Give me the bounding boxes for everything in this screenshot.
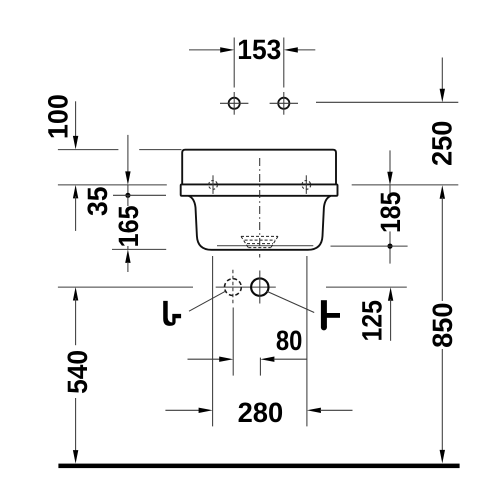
inner bottom extension line right	[331, 245, 408, 247]
dim 100 line	[75, 101, 77, 137]
centerline	[259, 158, 261, 258]
extension line x=233.2	[232, 308, 234, 376]
dim 280 left arrow	[165, 409, 200, 411]
extension line x=306.9	[306, 256, 308, 426]
svg-text:125: 125	[356, 300, 387, 342]
svg-text:850: 850	[427, 303, 458, 348]
dim 80 left arrow	[188, 358, 221, 360]
svg-text:165: 165	[113, 205, 144, 247]
rim top extension line left	[58, 184, 167, 186]
drain recess dashed outline	[241, 235, 278, 237]
svg-text:185: 185	[375, 192, 406, 234]
faucet hole right	[278, 98, 289, 109]
dim 250 top arrow	[441, 58, 443, 91]
svg-text:80: 80	[276, 325, 303, 356]
chain dot 185/125	[387, 244, 392, 249]
rim fixing mark right	[305, 175, 307, 194]
water outlet solid circle	[251, 278, 268, 295]
extension line x=212.6	[212, 256, 214, 426]
basin rim	[181, 184, 338, 195]
dim 153 ext line right	[283, 38, 285, 88]
svg-text:540: 540	[62, 350, 93, 394]
dim 280 right arrow	[307, 408, 321, 413]
rim fixing mark left	[212, 175, 214, 194]
svg-text:35: 35	[82, 187, 113, 217]
leader to trap symbol	[189, 291, 225, 311]
faucet hole left	[229, 98, 240, 109]
dim 80 right arrow	[260, 357, 274, 362]
tap level extension line right	[316, 101, 458, 103]
dim 540 bottom arrow	[75, 398, 77, 452]
dim 153 ext line left	[233, 38, 235, 88]
rim top extension line right	[352, 184, 459, 186]
rim bottom extension line	[113, 194, 166, 196]
supply level line left	[58, 286, 193, 288]
svg-text:100: 100	[43, 94, 74, 139]
dim 165 bottom arrow	[125, 249, 130, 263]
dim 153 arrow line right	[297, 49, 315, 51]
extension line x=260.4	[259, 358, 261, 376]
dim 153 arrow line left	[189, 49, 221, 51]
dim 35 line	[127, 135, 129, 173]
basin top extension line	[58, 149, 119, 151]
svg-text:280: 280	[238, 397, 284, 428]
svg-text:153: 153	[237, 34, 281, 65]
supply level line right	[326, 286, 407, 288]
supply T symbol	[321, 300, 327, 327]
leader to supply symbol	[266, 291, 314, 313]
supply level line middle (crosshair)	[216, 286, 276, 288]
dim 125 top arrow	[388, 287, 393, 301]
floor line	[58, 464, 459, 469]
dim 850 top arrow	[440, 185, 445, 199]
dim 540 top arrow	[73, 287, 78, 301]
basin inner bottom line	[217, 245, 313, 247]
svg-text:250: 250	[426, 121, 457, 167]
basin bottom extension line left	[112, 248, 166, 250]
basin tank outline	[182, 150, 336, 185]
basin body outline	[189, 196, 331, 250]
chain dot 35/165	[125, 193, 130, 198]
dim 35 bottom arrow	[73, 185, 78, 199]
drain trap symbol	[163, 301, 181, 326]
dim 185 top arrow	[389, 150, 391, 173]
dim 850 bottom arrow	[441, 349, 443, 452]
drain outlet dashed circle	[225, 279, 242, 296]
